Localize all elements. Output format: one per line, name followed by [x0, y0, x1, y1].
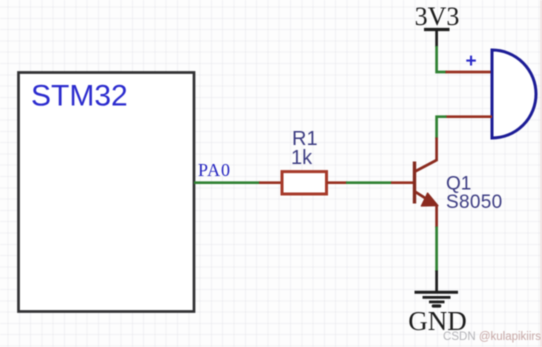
label Q1 [446, 174, 471, 195]
resistor R1 [282, 172, 327, 194]
buzzer bottom pin wire, dark red [446, 115, 493, 118]
right edge tint [540, 0, 542, 347]
emitter pin wire, dark red [435, 205, 438, 228]
svg-text:STM32: STM32 [31, 80, 128, 113]
watermark [443, 331, 541, 343]
buzzer top pin wire, dark red [446, 71, 493, 74]
sheet symbol STM32 [19, 73, 195, 312]
wire emitter to GND, green segment [435, 227, 438, 272]
wire 3V3 to buzzer plus pin, green corner [437, 46, 447, 72]
buzzer LS1 (no designator shown) [492, 50, 536, 138]
wire base pin, dark red segment [391, 181, 414, 184]
pin label PA0 [198, 160, 231, 180]
svg-text:S8050: S8050 [446, 192, 502, 213]
wire R1 to base, dark red segment [327, 181, 348, 184]
svg-text:PA0: PA0 [198, 160, 231, 180]
collector pin wire, dark red [435, 138, 438, 162]
wire to ground symbol, black segment [435, 271, 438, 292]
value 1k [291, 147, 313, 169]
wire buzzer to Q1 collector, green corner [437, 117, 447, 139]
value S8050 [446, 192, 502, 213]
label STM32 [31, 80, 128, 113]
svg-text:+: + [466, 51, 477, 72]
ground symbol [415, 292, 459, 306]
svg-text:1k: 1k [291, 147, 313, 169]
label GND [408, 306, 467, 336]
svg-text:3V3: 3V3 [415, 2, 460, 31]
wire PA0 to R1, green segment [194, 181, 260, 184]
wire R1 to base, green segment [346, 181, 392, 184]
plus marking [466, 51, 477, 72]
label R1 [292, 128, 318, 150]
svg-text:CSDN @kulapikiirs: CSDN @kulapikiirs [443, 331, 541, 343]
transistor Q1 [415, 160, 439, 206]
power 3V3 label [415, 2, 460, 31]
wire into R1, dark red segment [259, 181, 282, 184]
power 3V3 bar symbol [424, 30, 450, 48]
